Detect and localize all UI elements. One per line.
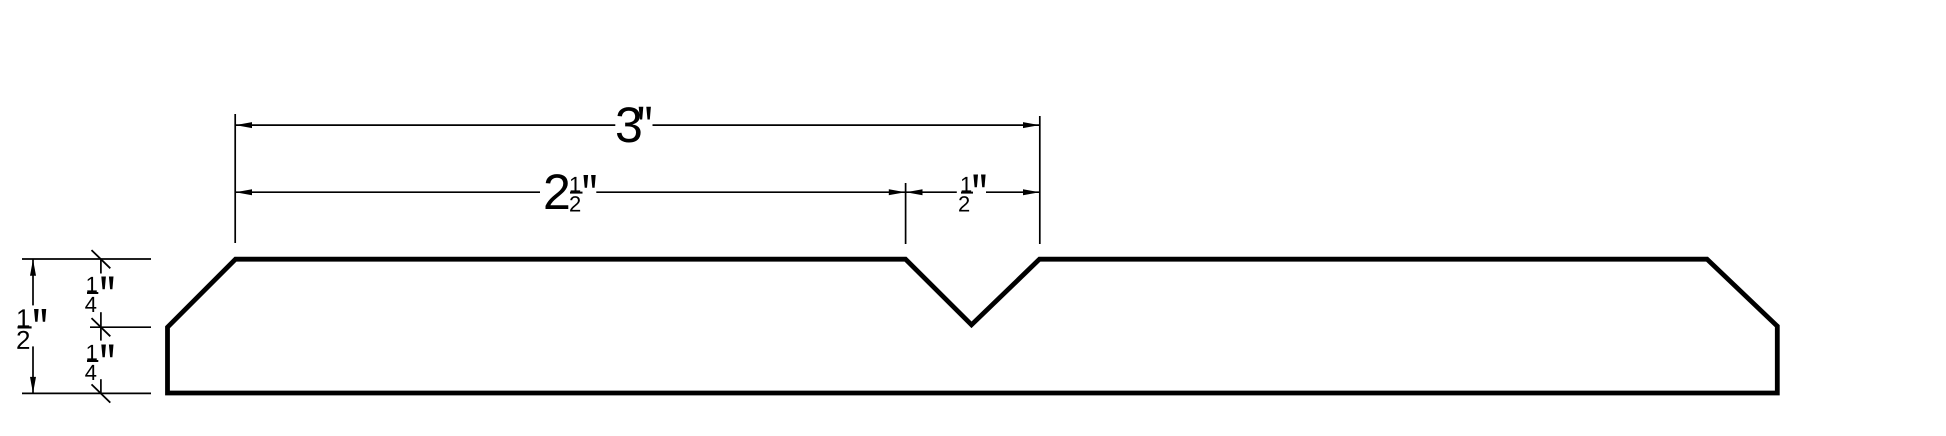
dimension line 3" bbox=[236, 124, 616, 126]
inch mark for 1/2" top bbox=[973, 175, 985, 188]
label 1/4" upper bbox=[87, 277, 96, 292]
arrowhead 1/2" right bbox=[1023, 189, 1040, 195]
dimension line 1/2" vertical left x=33 bbox=[32, 259, 34, 305]
extension line top horizontal y=259 bbox=[22, 258, 151, 260]
inch mark for 3" bbox=[639, 107, 651, 120]
arrowhead 1/2" vertical top bbox=[30, 259, 36, 276]
profile outline bbox=[168, 259, 1778, 393]
arrowhead 3" left bbox=[236, 122, 253, 128]
extension line left vertical x=235 bbox=[234, 114, 236, 243]
label 3" bbox=[617, 107, 641, 142]
label 1/4" lower bbox=[87, 345, 96, 360]
extension line middle horizontal y=327 bbox=[90, 326, 151, 328]
extension line right vertical x=1039.8 bbox=[1039, 116, 1041, 244]
inch mark for 1/4" lower bbox=[101, 345, 113, 358]
inch mark for 1/2" left bbox=[34, 309, 46, 322]
label 1/2" top bbox=[962, 177, 971, 192]
label 1/2" left bbox=[18, 309, 29, 327]
tick top bbox=[92, 250, 111, 268]
tick bottom bbox=[92, 384, 111, 402]
arrowhead 2 1/2" right bbox=[889, 189, 906, 195]
dimension line 1/2" horizontal bbox=[906, 191, 957, 193]
arrowhead 1/2" vertical bottom bbox=[30, 377, 36, 394]
label 2 1/2" bbox=[546, 174, 569, 209]
extension line bottom horizontal y=394 bbox=[22, 392, 151, 394]
dimension line 1/4" vertical x=100.9 bbox=[100, 258, 102, 273]
inch mark for 2 1/2" bbox=[584, 175, 596, 188]
arrowhead 2 1/2" left bbox=[236, 189, 253, 195]
tick middle bbox=[92, 318, 111, 336]
arrowhead 1/2" left bbox=[906, 189, 923, 195]
arrowhead 3" right bbox=[1023, 122, 1040, 128]
dimension line 2 1/2" bbox=[236, 191, 541, 193]
inch mark for 1/4" upper bbox=[101, 277, 113, 290]
extension line middle vertical x=905.6 bbox=[905, 183, 907, 244]
